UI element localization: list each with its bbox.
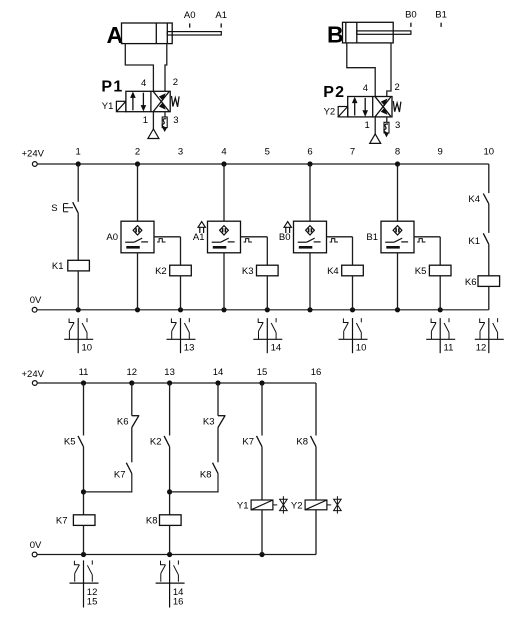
svg-text:B1: B1 <box>435 9 447 20</box>
0V supply rail (upper ladder) <box>30 295 489 312</box>
svg-text:3: 3 <box>178 147 183 158</box>
wire column 13 upper <box>169 383 171 436</box>
contact cross-reference under column 10 <box>475 318 504 353</box>
wire column 14 segment <box>217 428 219 463</box>
wire column 13 lower <box>169 525 171 554</box>
svg-text:K2: K2 <box>150 436 162 447</box>
wire column 15 lower <box>261 510 263 555</box>
wire pipe B rod-end to valve P2 port 2 <box>387 43 391 97</box>
junction on 0V rail <box>265 307 270 312</box>
svg-text:15: 15 <box>87 597 98 608</box>
svg-text:1: 1 <box>143 115 148 126</box>
svg-text:Y2: Y2 <box>291 501 303 512</box>
svg-text:K7: K7 <box>242 436 254 447</box>
junction on 0V rail <box>178 307 183 312</box>
silencer on P2 port 3 <box>384 122 389 133</box>
svg-text:10: 10 <box>82 342 93 353</box>
relay coil K4 <box>327 265 363 277</box>
contact cross-reference under column at x=180.5 <box>167 318 196 353</box>
svg-text:4: 4 <box>363 83 368 94</box>
svg-text:14: 14 <box>213 367 224 378</box>
relay coil K5 <box>415 265 451 277</box>
relay contact K7 (NO) in column 12 <box>114 463 132 481</box>
wire port 1 of P1 <box>152 112 154 129</box>
relay coil K7 <box>56 515 95 527</box>
svg-text:A1: A1 <box>193 232 205 243</box>
svg-text:4: 4 <box>221 147 226 158</box>
svg-text:P2: P2 <box>323 84 345 101</box>
column numbers 1-10 <box>76 147 495 158</box>
junction on +24V rail <box>395 161 400 166</box>
relay coil K6 <box>465 276 500 288</box>
svg-text:K6: K6 <box>465 277 477 288</box>
wire column sensor B1 lower <box>397 253 399 310</box>
wire column sensor A0 lower <box>137 253 139 310</box>
svg-text:16: 16 <box>311 367 322 378</box>
junction on 0V rail <box>438 307 443 312</box>
sensor B1 output wire with pulse symbol to coil K5 <box>414 237 440 265</box>
junction on 0V rail <box>307 307 312 312</box>
svg-text:K5: K5 <box>415 266 427 277</box>
junction on lower +24V rail <box>259 380 264 385</box>
svg-text:2: 2 <box>173 77 178 88</box>
wire column 10 segment <box>488 204 490 233</box>
svg-text:10: 10 <box>484 147 495 158</box>
svg-text:+24V: +24V <box>22 369 45 380</box>
wire column 11 upper <box>83 383 85 436</box>
cylinder A with rod extended to A1 <box>107 10 228 48</box>
+24V supply rail (upper ladder) <box>22 149 489 167</box>
relay coil K3 <box>242 265 278 277</box>
contact cross-reference under column at x=440.2 <box>426 318 455 353</box>
contact cross-reference K8 under column 13 <box>156 560 185 607</box>
svg-text:K8: K8 <box>200 469 212 480</box>
junction on lower +24V rail <box>167 380 172 385</box>
svg-text:K1: K1 <box>52 261 64 272</box>
svg-text:11: 11 <box>79 367 89 378</box>
junction on 0V rail <box>350 307 355 312</box>
svg-text:K8: K8 <box>146 515 158 526</box>
wire column sensor B0 upper <box>309 164 311 221</box>
sensor B0 output wire with pulse symbol to coil K4 <box>327 237 353 265</box>
wire column sensor A1 lower <box>223 253 225 310</box>
svg-text:B0: B0 <box>405 9 417 20</box>
svg-text:K6: K6 <box>117 416 129 427</box>
wire column 12 upper <box>131 383 133 416</box>
svg-text:P1: P1 <box>101 79 123 96</box>
svg-text:9: 9 <box>438 147 443 158</box>
svg-text:2: 2 <box>395 82 400 93</box>
wire column 11 lower <box>83 525 85 554</box>
wire below coil K3 <box>266 276 268 310</box>
relay contact K5 (NO) <box>64 436 84 447</box>
proximity sensor B1 <box>366 221 414 253</box>
svg-text:7: 7 <box>350 147 355 158</box>
svg-text:1: 1 <box>365 120 370 131</box>
wire column sensor B0 lower <box>309 253 311 310</box>
svg-text:12: 12 <box>476 342 487 353</box>
wire column 1 lower <box>77 271 79 310</box>
svg-text:5: 5 <box>265 147 270 158</box>
svg-text:+24V: +24V <box>22 149 45 160</box>
wire port 1 of P2 <box>374 117 376 134</box>
wire column sensor A0 upper <box>137 164 139 221</box>
svg-text:15: 15 <box>257 367 268 378</box>
wire column 14 to column 13 join <box>170 474 218 492</box>
cylinder B with rod retracted at B0 <box>327 9 447 47</box>
solenoid Y2 <box>291 496 341 513</box>
wire column 15 middle <box>261 447 263 500</box>
svg-text:Y1: Y1 <box>102 101 114 112</box>
air supply triangle P1 <box>148 129 159 139</box>
contact cross-reference under column at x=352.5 <box>339 318 368 353</box>
svg-text:2: 2 <box>135 147 140 158</box>
proximity sensor A0 <box>106 221 154 253</box>
svg-text:13: 13 <box>184 342 195 353</box>
junction on lower +24V rail <box>129 380 134 385</box>
svg-text:Y2: Y2 <box>324 106 336 117</box>
solenoid Y1 <box>237 496 287 513</box>
wire column sensor B1 upper <box>397 164 399 221</box>
svg-text:12: 12 <box>127 367 138 378</box>
svg-text:11: 11 <box>444 342 454 353</box>
junction on 0V rail <box>395 307 400 312</box>
wire column 16 lower <box>315 510 317 555</box>
svg-text:K1: K1 <box>468 236 480 247</box>
junction on lower +24V rail <box>215 380 220 385</box>
wire column 16 upper <box>315 383 317 436</box>
svg-text:A1: A1 <box>215 10 227 21</box>
svg-text:K4: K4 <box>327 266 339 277</box>
svg-text:K5: K5 <box>64 436 76 447</box>
svg-text:A0: A0 <box>106 232 118 243</box>
pushbutton S (NO) <box>51 202 78 214</box>
wire column 13 middle <box>169 447 171 515</box>
svg-text:S: S <box>51 203 57 214</box>
proximity sensor B0 <box>279 221 327 253</box>
svg-text:B1: B1 <box>366 232 378 243</box>
junction on lower +24V rail <box>81 380 86 385</box>
svg-text:4: 4 <box>141 78 146 89</box>
air supply triangle P2 <box>370 134 381 144</box>
svg-text:16: 16 <box>173 597 184 608</box>
junction on lower 0V rail <box>259 552 264 557</box>
column numbers 11-16 <box>79 367 322 378</box>
wire column 10 lower <box>488 286 490 309</box>
wire column 11 middle <box>83 447 85 515</box>
wire below coil K5 <box>439 276 441 310</box>
relay contact K6 (NC) <box>117 416 139 428</box>
svg-text:K4: K4 <box>468 194 480 205</box>
relay contact K4 (NO) <box>468 194 488 206</box>
silencer on P1 port 3 <box>162 117 167 128</box>
svg-text:3: 3 <box>395 120 400 131</box>
svg-text:13: 13 <box>164 367 175 378</box>
svg-text:14: 14 <box>271 342 282 353</box>
junction on 0V rail <box>135 307 140 312</box>
svg-text:K7: K7 <box>56 515 68 526</box>
svg-text:A0: A0 <box>184 10 196 21</box>
svg-text:A: A <box>107 22 124 48</box>
junction on +24V rail <box>221 161 226 166</box>
valve P2 4/2-way with solenoid Y2 <box>323 82 401 131</box>
relay contact K3 (NC) <box>203 416 226 428</box>
wire port 3 of P2 <box>386 117 388 122</box>
relay coil K1 <box>52 260 90 272</box>
svg-text:K2: K2 <box>155 266 167 277</box>
svg-text:K3: K3 <box>203 416 215 427</box>
svg-text:3: 3 <box>173 115 178 126</box>
0V supply rail (lower ladder) <box>30 540 316 557</box>
svg-text:8: 8 <box>395 147 400 158</box>
svg-text:Y1: Y1 <box>237 501 249 512</box>
svg-text:K8: K8 <box>296 436 308 447</box>
svg-text:1: 1 <box>76 147 81 158</box>
+24V supply rail (lower ladder) <box>22 369 317 385</box>
junction on lower 0V rail <box>167 552 172 557</box>
svg-text:10: 10 <box>356 342 367 353</box>
junction on +24V rail <box>135 161 140 166</box>
svg-text:6: 6 <box>307 147 312 158</box>
wire pipe A rod-end to valve P1 port 2 <box>165 44 167 92</box>
wire port 3 of P1 <box>164 112 166 117</box>
svg-text:K3: K3 <box>242 266 254 277</box>
wire column 14 upper <box>217 383 219 416</box>
proximity sensor A1 <box>193 221 241 253</box>
wire column 12 segment <box>131 428 133 463</box>
svg-text:K7: K7 <box>114 469 126 480</box>
junction on lower 0V rail <box>81 552 86 557</box>
junction on 0V rail <box>221 307 226 312</box>
relay contact K8 (NO) in column 14 <box>200 463 218 481</box>
junction on 0V rail <box>76 307 81 312</box>
relay coil K2 <box>155 265 191 277</box>
wire column 12 to column 11 join <box>84 474 132 492</box>
wire column 15 upper <box>261 383 263 436</box>
sensor A1 output wire with pulse symbol to coil K3 <box>241 237 268 265</box>
wire column 10 upper <box>488 164 490 193</box>
junction on +24V rail <box>307 161 312 166</box>
wire below coil K4 <box>352 276 354 310</box>
contact cross-reference under column at x=267.3 <box>253 318 282 353</box>
relay contact K2 (NO) <box>150 436 170 447</box>
relay contact K7 (NO) in column 15 <box>242 436 262 447</box>
relay coil K8 <box>146 515 181 527</box>
contact cross-reference K7 under column 11 <box>70 560 99 607</box>
svg-text:B0: B0 <box>279 232 291 243</box>
svg-text:0V: 0V <box>30 540 42 551</box>
wire column 10 segment 2 <box>488 244 490 275</box>
wire column 1 upper <box>77 164 79 202</box>
wire pipe B cap-end to valve P2 port 4 <box>347 43 375 97</box>
svg-text:B: B <box>327 21 344 47</box>
wire column sensor A1 upper <box>223 164 225 221</box>
svg-text:0V: 0V <box>30 295 42 306</box>
relay contact K1 (NO) <box>468 233 488 247</box>
wire column 16 middle <box>315 447 317 500</box>
relay contact K8 (NO) in column 16 <box>296 436 316 447</box>
valve P1 4/2-way with solenoid Y1 <box>101 77 179 126</box>
wire pipe A cap-end to valve P1 port 4 <box>125 44 153 92</box>
junction on +24V rail <box>76 161 81 166</box>
contact cross-reference under column at x=78.2 <box>64 318 93 353</box>
wire column 1 middle <box>77 213 79 260</box>
wire below coil K2 <box>180 276 182 310</box>
sensor A0 output wire with pulse symbol to coil K2 <box>154 237 181 265</box>
junction column 11/12 branch <box>81 489 86 494</box>
junction column 13/14 branch <box>167 489 172 494</box>
